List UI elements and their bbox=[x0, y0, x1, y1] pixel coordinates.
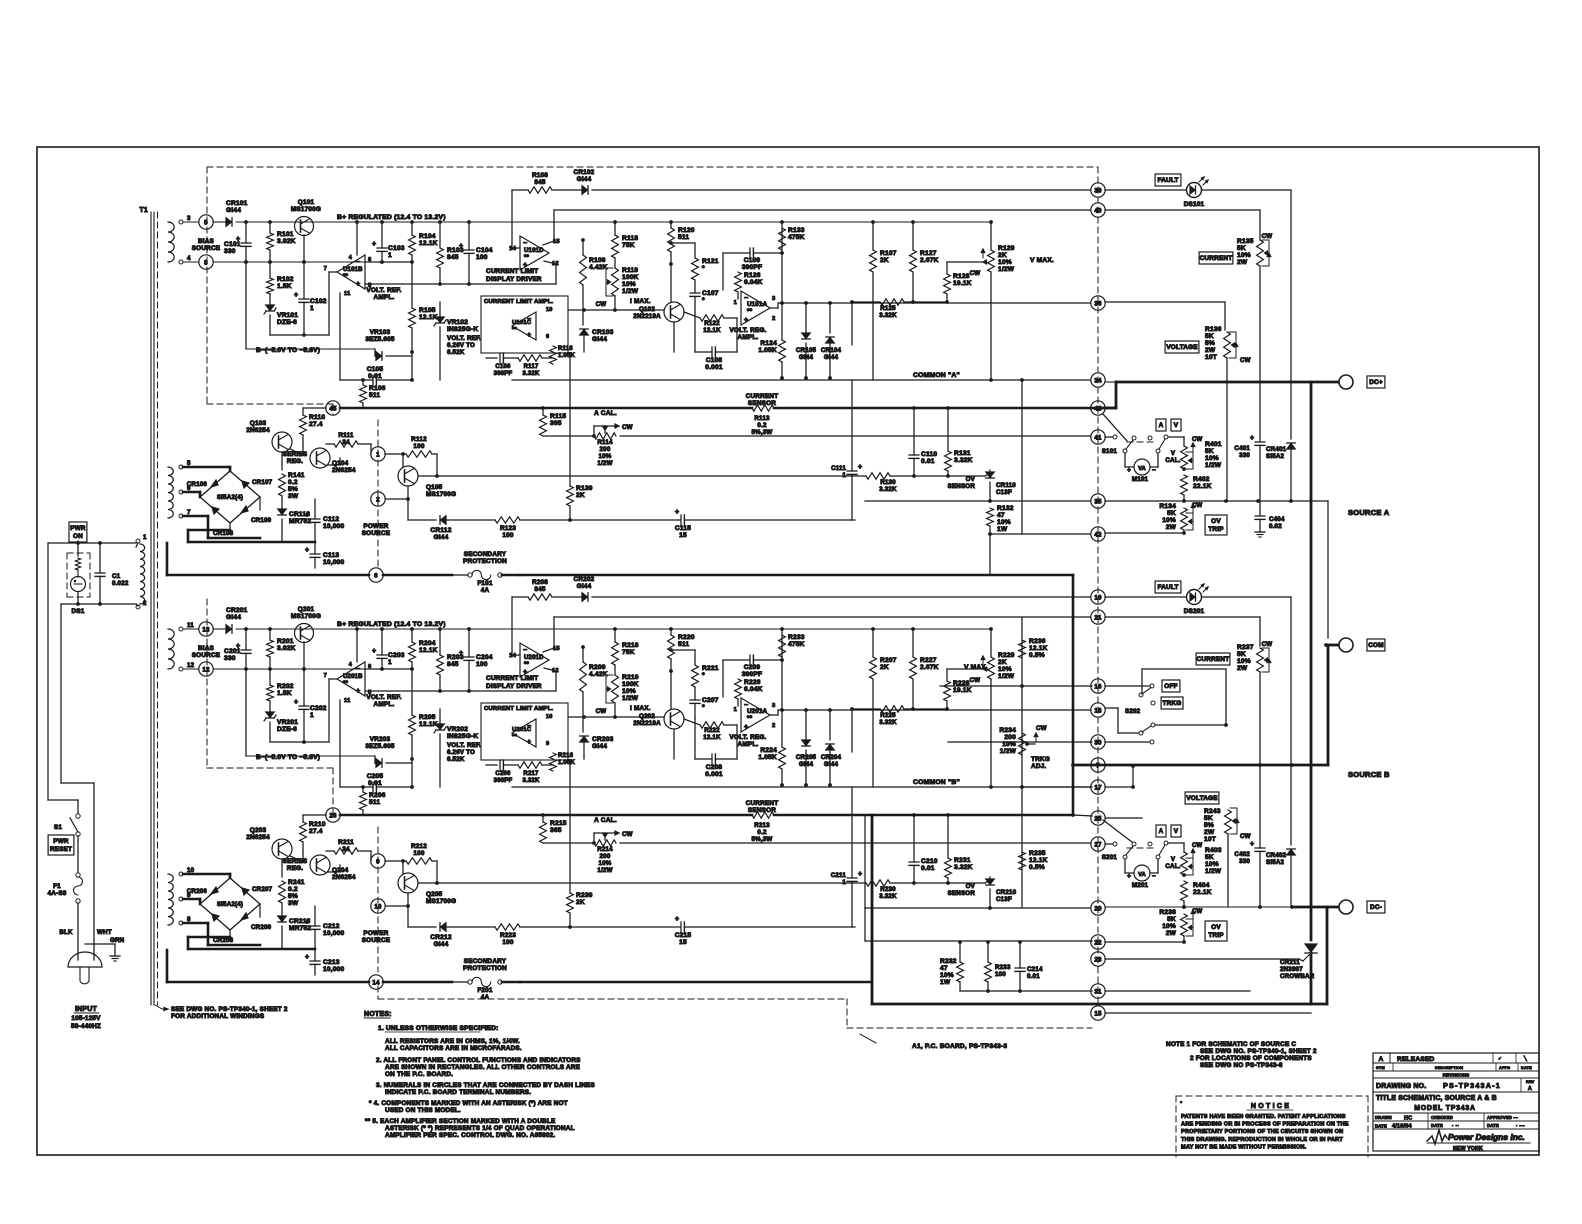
wire bbox=[1168, 436, 1184, 438]
capacitor C115 bbox=[680, 515, 682, 525]
zener VR203 bbox=[376, 759, 382, 768]
svg-text:I MAX.: I MAX. bbox=[630, 705, 651, 712]
resistor R233 bbox=[985, 962, 992, 982]
wire bbox=[303, 642, 305, 669]
wire bbox=[183, 515, 208, 518]
wire bbox=[851, 302, 853, 345]
wire bbox=[694, 650, 696, 665]
svg-text:C112: C112 bbox=[323, 516, 339, 523]
svg-text:2. ALL FRONT PANEL CONTROL FU: 2. ALL FRONT PANEL CONTROL FUNCTIONS AND… bbox=[376, 1057, 581, 1064]
wire bbox=[684, 926, 855, 928]
svg-text:2W: 2W bbox=[1166, 524, 1177, 531]
svg-text:5%: 5% bbox=[288, 486, 298, 493]
svg-text:R401: R401 bbox=[1205, 441, 1222, 448]
svg-text:*: * bbox=[702, 297, 705, 304]
wire bbox=[48, 542, 136, 544]
wire bbox=[1259, 501, 1261, 516]
svg-text:NEW YORK: NEW YORK bbox=[1453, 1146, 1483, 1152]
node 15 bbox=[1091, 1006, 1105, 1020]
wire bbox=[213, 221, 225, 223]
potentiometer R219 bbox=[612, 675, 619, 703]
svg-text:5%,3W: 5%,3W bbox=[752, 429, 773, 436]
potentiometer R238 bbox=[1181, 914, 1188, 936]
svg-text:GI44: GI44 bbox=[824, 761, 839, 768]
svg-text:Q201: Q201 bbox=[298, 606, 315, 613]
capacitor C213 bbox=[310, 960, 320, 962]
resistor R209 bbox=[580, 662, 587, 692]
svg-text:Q203: Q203 bbox=[250, 827, 267, 834]
wire bbox=[374, 756, 376, 763]
wire bbox=[290, 856, 303, 862]
resistor R117 bbox=[518, 355, 542, 361]
wire bbox=[411, 222, 413, 235]
wire bbox=[269, 629, 271, 640]
boxes A V bbox=[1156, 419, 1166, 431]
svg-text:511: 511 bbox=[678, 641, 689, 648]
svg-text:R116: R116 bbox=[558, 346, 573, 352]
svg-text:R115: R115 bbox=[550, 413, 566, 420]
svg-text:*: * bbox=[702, 704, 705, 711]
svg-text:CW: CW bbox=[596, 708, 607, 715]
svg-text:RELEASED: RELEASED bbox=[1397, 1056, 1435, 1063]
wire bbox=[520, 926, 680, 928]
resistor R122 bbox=[700, 315, 724, 321]
wire bbox=[446, 519, 495, 521]
wire bbox=[990, 222, 992, 250]
wire bbox=[1150, 466, 1158, 468]
svg-text:100: 100 bbox=[995, 971, 1006, 978]
svg-text:0.01: 0.01 bbox=[368, 780, 382, 787]
svg-text:4: 4 bbox=[349, 255, 353, 261]
svg-text:6.04K: 6.04K bbox=[744, 686, 763, 693]
wire bbox=[60, 604, 62, 783]
svg-text:3W: 3W bbox=[288, 493, 299, 500]
resistor R227 bbox=[910, 657, 917, 679]
svg-text:10%: 10% bbox=[998, 666, 1012, 673]
svg-text:REG.: REG. bbox=[287, 458, 303, 465]
svg-text:C206: C206 bbox=[495, 771, 511, 777]
wire bbox=[452, 981, 468, 983]
node 20 bbox=[1091, 901, 1105, 915]
svg-text:VR102: VR102 bbox=[447, 319, 468, 326]
resistor R109 bbox=[580, 255, 587, 285]
svg-text:R110: R110 bbox=[309, 414, 325, 421]
potentiometer R136 bbox=[1224, 332, 1231, 358]
svg-text:** 5. EACH AMPLIFIER SECTION: ** 5. EACH AMPLIFIER SECTION MARKED WITH… bbox=[365, 1118, 556, 1125]
svg-text:10T: 10T bbox=[1205, 354, 1217, 361]
svg-text:0.02: 0.02 bbox=[1269, 523, 1282, 530]
wire bbox=[912, 222, 914, 250]
switch S201 bbox=[1132, 842, 1136, 846]
svg-text:CW: CW bbox=[1240, 357, 1251, 364]
wire bbox=[468, 629, 470, 657]
resistor R402 bbox=[1181, 475, 1188, 495]
svg-text:Q205: Q205 bbox=[426, 891, 443, 898]
resistor R125 bbox=[880, 299, 904, 305]
svg-text:R202: R202 bbox=[277, 683, 294, 690]
dashed boundary bbox=[207, 166, 1098, 168]
resistor R103 bbox=[437, 248, 444, 268]
diode CR205 bbox=[802, 740, 811, 746]
meter M201 bbox=[1134, 865, 1150, 881]
wire bbox=[851, 380, 853, 471]
resistor R123 bbox=[495, 517, 520, 523]
svg-text:365: 365 bbox=[550, 420, 562, 427]
potentiometer R129 bbox=[988, 250, 995, 272]
svg-text:SOURCE: SOURCE bbox=[362, 530, 391, 537]
wire bbox=[326, 850, 334, 852]
svg-text:1/2W: 1/2W bbox=[597, 867, 612, 874]
svg-text:19.1K: 19.1K bbox=[953, 687, 972, 694]
svg-text:R113: R113 bbox=[754, 415, 770, 422]
svg-text:12.1K: 12.1K bbox=[703, 327, 721, 334]
wire bbox=[99, 543, 101, 573]
svg-text:R206: R206 bbox=[369, 792, 386, 799]
svg-text:3.32K: 3.32K bbox=[879, 312, 897, 319]
svg-text:C401: C401 bbox=[1234, 445, 1250, 452]
svg-text:1/2W: 1/2W bbox=[622, 288, 639, 295]
svg-text:R130: R130 bbox=[880, 479, 896, 486]
wire bbox=[583, 335, 585, 352]
svg-text:+: + bbox=[305, 954, 309, 961]
svg-text:APPROVED —: APPROVED — bbox=[1487, 1115, 1518, 1120]
wire bbox=[1105, 685, 1150, 687]
transistor Q201 bbox=[295, 624, 314, 643]
svg-text:1: 1 bbox=[734, 707, 738, 713]
svg-text:ARE SHOWN IN RECTANGLES. ALL O: ARE SHOWN IN RECTANGLES. ALL OTHER CONTR… bbox=[385, 1064, 581, 1071]
svg-text:USED ON THIS MODEL.: USED ON THIS MODEL. bbox=[385, 1107, 461, 1114]
svg-text:390PF: 390PF bbox=[494, 778, 513, 784]
svg-text:REVISIONS: REVISIONS bbox=[1443, 1073, 1470, 1078]
svg-text:9: 9 bbox=[546, 334, 549, 340]
wire bbox=[1327, 645, 1330, 765]
resistor R211 bbox=[334, 848, 358, 854]
wire bbox=[183, 491, 200, 494]
svg-text:CURRENT LIMIT AMPL.: CURRENT LIMIT AMPL. bbox=[484, 299, 554, 305]
svg-text:5K: 5K bbox=[1237, 651, 1246, 658]
wire bbox=[989, 877, 991, 879]
svg-text:10%: 10% bbox=[1237, 252, 1251, 259]
svg-text:CW: CW bbox=[1192, 503, 1203, 509]
capacitor C401 bbox=[1255, 441, 1265, 443]
svg-text:7: 7 bbox=[324, 266, 327, 272]
capacitor C206 bbox=[499, 760, 501, 770]
wire bbox=[183, 466, 230, 469]
node 42 bbox=[1091, 527, 1105, 541]
svg-text:DISPLAY DRIVER: DISPLAY DRIVER bbox=[486, 276, 542, 283]
svg-text:AMPLIFIER PER SPEC. CONTROL DW: AMPLIFIER PER SPEC. CONTROL DWG. NO. A65… bbox=[385, 1132, 555, 1139]
capacitor C103 bbox=[377, 247, 387, 249]
logo Power Designs bbox=[1427, 1130, 1447, 1144]
wire bbox=[871, 815, 874, 1004]
wire bbox=[1226, 358, 1228, 501]
svg-text:DATE: DATE bbox=[1431, 1123, 1443, 1128]
svg-text:2K: 2K bbox=[576, 492, 585, 499]
svg-text:PROTECTION: PROTECTION bbox=[463, 558, 507, 565]
node 17 bbox=[1091, 780, 1105, 794]
op-amp U101B bbox=[337, 255, 365, 289]
wire bbox=[370, 851, 372, 861]
svg-text:U101D: U101D bbox=[524, 248, 544, 254]
svg-text:R220: R220 bbox=[678, 634, 695, 641]
svg-text:U201D: U201D bbox=[524, 655, 544, 661]
node 6 bbox=[369, 568, 383, 582]
svg-text:SOURCE: SOURCE bbox=[192, 652, 221, 659]
svg-text:COMMON "B": COMMON "B" bbox=[913, 779, 960, 786]
FAULT label A bbox=[1155, 174, 1181, 186]
wire bbox=[446, 926, 495, 928]
svg-text:R241: R241 bbox=[288, 879, 305, 886]
svg-text:F1: F1 bbox=[53, 883, 61, 890]
svg-text:VR201: VR201 bbox=[277, 719, 298, 726]
wire bbox=[947, 815, 949, 858]
svg-text:14: 14 bbox=[509, 653, 516, 659]
svg-text:−: − bbox=[1152, 467, 1156, 474]
svg-text:R122: R122 bbox=[704, 320, 720, 327]
svg-text:VR103: VR103 bbox=[370, 329, 391, 336]
wire bbox=[183, 873, 230, 876]
svg-text:*: * bbox=[702, 265, 705, 272]
svg-text:APPD: APPD bbox=[1499, 1066, 1510, 1070]
wire bbox=[1259, 672, 1261, 848]
svg-text:V: V bbox=[1171, 856, 1176, 863]
wire bbox=[1103, 414, 1127, 441]
svg-text:R121: R121 bbox=[702, 258, 719, 265]
wire bbox=[511, 190, 513, 248]
svg-text:CR102: CR102 bbox=[574, 169, 595, 176]
svg-text:845: 845 bbox=[534, 179, 546, 186]
wire bbox=[593, 833, 595, 843]
svg-text:2K: 2K bbox=[880, 664, 889, 671]
svg-text:13: 13 bbox=[202, 626, 210, 633]
wire bbox=[781, 303, 783, 340]
svg-text:0.2: 0.2 bbox=[288, 479, 298, 486]
wire bbox=[402, 454, 404, 467]
node 39 bbox=[1091, 183, 1105, 197]
svg-text:0.01: 0.01 bbox=[368, 373, 382, 380]
capacitor C107 bbox=[690, 292, 700, 294]
svg-text:19.1K: 19.1K bbox=[953, 280, 972, 287]
svg-text:INDICATE P.C. BOARD TERMINAL: INDICATE P.C. BOARD TERMINAL NUMBERS. bbox=[385, 1089, 531, 1096]
svg-text:C201: C201 bbox=[224, 648, 241, 655]
svg-text:COM: COM bbox=[1368, 642, 1384, 649]
wire bbox=[411, 629, 413, 642]
wire bbox=[362, 787, 364, 792]
svg-text:4: 4 bbox=[187, 255, 191, 262]
wire bbox=[737, 699, 739, 706]
wire bbox=[1105, 532, 1184, 534]
svg-text:CW: CW bbox=[1036, 725, 1047, 732]
svg-text:R233: R233 bbox=[788, 634, 805, 641]
svg-text:0.01: 0.01 bbox=[921, 865, 935, 872]
svg-text:AMPL.: AMPL. bbox=[374, 294, 395, 301]
node 41 bbox=[1091, 430, 1105, 444]
wire bbox=[582, 647, 584, 662]
svg-text:10%: 10% bbox=[998, 259, 1012, 266]
svg-text:R108: R108 bbox=[532, 172, 548, 179]
svg-text:CR202: CR202 bbox=[574, 576, 595, 583]
wire bbox=[77, 541, 79, 543]
svg-text:C204: C204 bbox=[476, 654, 493, 661]
net CURRENT SENSOR bbox=[340, 814, 752, 817]
svg-text:•: • bbox=[1180, 1100, 1182, 1106]
svg-text:OV: OV bbox=[1211, 518, 1221, 525]
svg-text:+: + bbox=[305, 547, 309, 554]
svg-text:U201C: U201C bbox=[512, 727, 532, 733]
svg-text:CURRENT LIMIT AMPL.: CURRENT LIMIT AMPL. bbox=[484, 706, 554, 712]
svg-text:3: 3 bbox=[772, 296, 776, 302]
svg-text:R233: R233 bbox=[995, 964, 1011, 971]
diode CR105 bbox=[802, 333, 811, 339]
svg-text:SECONDARY: SECONDARY bbox=[464, 551, 507, 558]
wire bbox=[568, 716, 664, 718]
resistor R139 bbox=[567, 486, 574, 506]
wire bbox=[303, 262, 305, 299]
svg-text:Q202: Q202 bbox=[639, 713, 655, 720]
potentiometer R114 bbox=[594, 433, 616, 439]
wire bbox=[1150, 872, 1158, 874]
wire bbox=[851, 787, 853, 878]
svg-text:+: + bbox=[1250, 841, 1254, 848]
wire bbox=[872, 1003, 1327, 1006]
svg-text:**: ** bbox=[524, 255, 530, 261]
svg-text:CR103: CR103 bbox=[592, 329, 614, 336]
svg-text:SI5A2(4): SI5A2(4) bbox=[217, 494, 243, 501]
svg-text:R219: R219 bbox=[622, 674, 639, 681]
svg-text:ADJ.: ADJ. bbox=[1031, 763, 1046, 770]
wire bbox=[1259, 445, 1261, 501]
svg-text:2N3897: 2N3897 bbox=[1280, 966, 1303, 973]
diode CR213 bbox=[278, 916, 287, 922]
svg-text:0.2: 0.2 bbox=[757, 422, 767, 429]
svg-text:10: 10 bbox=[546, 714, 553, 720]
resistor R131 bbox=[945, 451, 952, 471]
svg-text:MR752: MR752 bbox=[289, 925, 311, 932]
svg-text:365: 365 bbox=[550, 827, 562, 834]
svg-text:PWR: PWR bbox=[53, 838, 69, 845]
svg-text:1. UNLESS OTHERWISE SPECIFIED:: 1. UNLESS OTHERWISE SPECIFIED: bbox=[378, 1025, 499, 1032]
svg-text:2K: 2K bbox=[998, 252, 1007, 259]
svg-text:C207: C207 bbox=[702, 697, 719, 704]
svg-text:DZE-6: DZE-6 bbox=[277, 726, 297, 733]
svg-text:BLK: BLK bbox=[59, 929, 73, 936]
svg-text:1: 1 bbox=[734, 300, 738, 306]
svg-text:0.01: 0.01 bbox=[1027, 973, 1040, 980]
svg-text:GI44: GI44 bbox=[592, 743, 607, 750]
wire bbox=[948, 741, 1092, 743]
diode CR204 bbox=[826, 745, 835, 751]
svg-text:2N2219A: 2N2219A bbox=[633, 720, 661, 727]
wire bbox=[1105, 941, 1184, 943]
svg-text:5%: 5% bbox=[288, 893, 298, 900]
potentiometer R134 bbox=[1181, 508, 1188, 530]
svg-text:9: 9 bbox=[546, 741, 549, 747]
diode CR104 bbox=[826, 338, 835, 344]
svg-text:VA: VA bbox=[1138, 872, 1146, 878]
svg-text:OV: OV bbox=[1211, 924, 1221, 931]
svg-text:6: 6 bbox=[374, 572, 378, 579]
resistor R110 bbox=[300, 415, 307, 435]
svg-text:200: 200 bbox=[600, 446, 611, 453]
svg-text:M201: M201 bbox=[1132, 882, 1149, 889]
wire bbox=[737, 292, 739, 299]
svg-text:A CAL.: A CAL. bbox=[594, 817, 617, 824]
svg-text:R118: R118 bbox=[622, 235, 638, 242]
wire bbox=[407, 486, 409, 520]
wire bbox=[781, 710, 783, 747]
resistor R231 bbox=[945, 858, 952, 878]
svg-text:R229: R229 bbox=[998, 652, 1015, 659]
wire bbox=[960, 990, 1092, 992]
svg-text:**: ** bbox=[512, 734, 517, 740]
wire bbox=[245, 669, 247, 756]
svg-text:0.2: 0.2 bbox=[757, 829, 767, 836]
svg-text:3.92K: 3.92K bbox=[277, 238, 296, 245]
zener VR103 bbox=[376, 352, 382, 361]
svg-text:R214: R214 bbox=[597, 846, 613, 853]
svg-text:AMPL.: AMPL. bbox=[738, 741, 759, 748]
boxes A V B bbox=[1156, 825, 1166, 837]
capacitor C207 bbox=[690, 699, 700, 701]
svg-text:475K: 475K bbox=[788, 641, 805, 648]
svg-text:R231: R231 bbox=[954, 857, 971, 864]
svg-text:TRKG: TRKG bbox=[1163, 700, 1182, 707]
svg-text:CURRENT: CURRENT bbox=[1197, 656, 1230, 663]
svg-text:−: − bbox=[523, 240, 527, 247]
svg-text:C213: C213 bbox=[323, 959, 340, 966]
CURRENT label A bbox=[1199, 252, 1233, 264]
wire bbox=[1182, 873, 1186, 877]
svg-text:**: ** bbox=[747, 308, 753, 315]
svg-text:CR207: CR207 bbox=[252, 886, 273, 893]
wire bbox=[512, 596, 528, 598]
svg-text:· —: · — bbox=[1516, 1124, 1525, 1130]
resistor R116 bbox=[550, 346, 557, 364]
svg-text:75K: 75K bbox=[622, 649, 635, 656]
node 18 bbox=[1091, 703, 1105, 717]
wire bbox=[852, 301, 880, 303]
svg-text:3: 3 bbox=[187, 215, 191, 222]
svg-text:2W: 2W bbox=[1237, 665, 1248, 672]
svg-text:C109: C109 bbox=[744, 257, 761, 264]
transformer T1 core bbox=[150, 212, 152, 1005]
wire bbox=[381, 222, 383, 248]
svg-text:CW: CW bbox=[596, 301, 607, 308]
capacitor C108 bbox=[711, 347, 713, 357]
svg-text:C113: C113 bbox=[323, 552, 339, 559]
wire bbox=[890, 882, 914, 884]
svg-text:INPUT: INPUT bbox=[75, 1006, 98, 1013]
svg-text:1.5K: 1.5K bbox=[277, 283, 292, 290]
svg-text:CW: CW bbox=[970, 677, 981, 684]
capacitor C105 bbox=[372, 375, 374, 385]
net SOURCE B sensor bbox=[1073, 764, 1328, 767]
svg-text:3.32K: 3.32K bbox=[954, 457, 973, 464]
svg-text:CR104: CR104 bbox=[821, 347, 842, 354]
svg-text:R215: R215 bbox=[550, 820, 567, 827]
svg-text:+: + bbox=[305, 919, 309, 926]
svg-text:CAL.: CAL. bbox=[1165, 457, 1180, 464]
svg-text:390PF: 390PF bbox=[494, 371, 513, 377]
svg-text:3: 3 bbox=[772, 703, 776, 709]
svg-text:10%: 10% bbox=[622, 688, 636, 695]
svg-text:12: 12 bbox=[187, 662, 195, 669]
svg-text:A: A bbox=[1379, 1056, 1384, 1063]
resistor R220 bbox=[668, 635, 675, 659]
wire bbox=[281, 452, 283, 470]
svg-text:2.67K: 2.67K bbox=[920, 257, 939, 264]
svg-text:CR203: CR203 bbox=[592, 736, 614, 743]
